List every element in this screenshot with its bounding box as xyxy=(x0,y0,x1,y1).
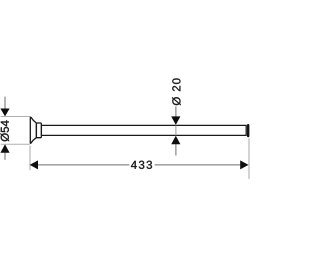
label O20 xyxy=(172,78,181,105)
label O54 xyxy=(1,120,10,141)
wall flange cone xyxy=(30,117,36,143)
end cap right xyxy=(247,124,249,137)
dimension line 433 right segment xyxy=(155,164,241,166)
dimension leader O20 across-bar segment xyxy=(175,125,177,135)
dimension line 433 left segment xyxy=(38,164,129,166)
arrow O20 bottom (points up onto bar bottom) xyxy=(171,136,180,144)
extension line left (433, below flange corner) xyxy=(29,146,31,171)
dimension leader O20 lower tail xyxy=(175,144,177,156)
dimension leader O20 upper segment xyxy=(175,107,177,117)
arrow O54 top (points down) xyxy=(0,109,9,117)
dimension line O54 upper segment xyxy=(4,97,6,110)
extension line right (433, below end cap) xyxy=(248,138,250,179)
arrow 433 right (points right) xyxy=(240,160,248,169)
arrow O54 bottom (points up) xyxy=(0,144,9,152)
arrow O20 top (points down onto bar top) xyxy=(171,116,180,125)
arrow 433 left (points left) xyxy=(30,160,38,169)
label 433 xyxy=(131,161,152,169)
dimension line O54 lower segment xyxy=(4,152,6,160)
towel bar rod xyxy=(41,125,246,135)
collar cylinder xyxy=(36,123,41,138)
extension line bottom-left (flange bottom edge) xyxy=(1,143,30,145)
extension line top-left (flange top edge) xyxy=(1,116,30,118)
